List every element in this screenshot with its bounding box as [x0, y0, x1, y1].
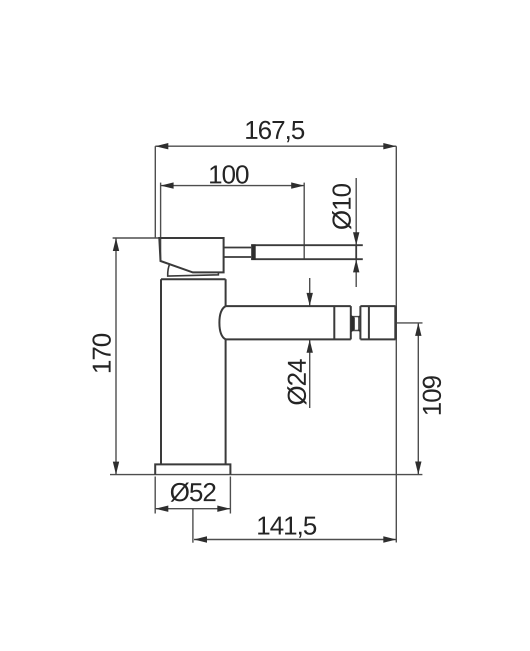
label 170 (vertical): [92, 334, 111, 372]
label diam52: [171, 483, 216, 502]
base surface line: [110, 474, 422, 476]
waist right corner fills: [358, 315, 360, 317]
dimension line 141,5: [194, 539, 396, 541]
aerator end cap left edge: [359, 306, 361, 339]
body right edge lower: [225, 339, 227, 464]
body top edge: [161, 278, 226, 280]
arrow 109 down: [415, 462, 421, 475]
spout-body fillet arc: [219, 306, 225, 339]
spout bottom lines: [226, 338, 396, 340]
waist thin lines: [352, 317, 360, 331]
extension line 100 left: [160, 183, 162, 261]
waist right inner line: [358, 317, 360, 330]
arrow 167,5 right: [383, 143, 396, 149]
arrow 170 down: [113, 462, 119, 475]
dimension line diam10 upper: [355, 178, 357, 245]
spout joint line: [333, 306, 335, 339]
arrow diam52 right: [217, 506, 230, 512]
dimension line diam10 lower: [355, 260, 357, 287]
spout mid section right edge: [350, 306, 352, 339]
body left edge: [160, 279, 162, 464]
dimension line 109: [417, 323, 419, 475]
tick at spout axis for 109: [396, 322, 422, 324]
spout top lines: [226, 305, 396, 307]
base flange: [155, 464, 230, 474]
arrow diam52 left: [155, 506, 168, 512]
arrow 170 up: [113, 238, 119, 251]
arrow 109 up: [415, 323, 421, 336]
label diam10 (vertical): [332, 184, 351, 229]
extension line left (lever top): [154, 146, 156, 237]
extension line right (spout end, full height): [395, 146, 397, 542]
tick at lever top for 170: [113, 237, 160, 239]
dimension line diam24 lower: [309, 340, 311, 408]
dimension line 167,5: [155, 145, 396, 147]
arrow 141,5 left: [194, 536, 207, 542]
dimension line diam24 upper: [309, 278, 311, 306]
rod ring: [251, 244, 256, 260]
lever head: [159, 238, 223, 272]
arrow diam10 up: [353, 259, 359, 272]
arrow 100 left: [161, 182, 174, 188]
lever rod top line: [251, 244, 363, 246]
extension lines diam52: [155, 477, 230, 514]
dimension line diam52: [155, 508, 230, 510]
lever rod neck: [224, 248, 252, 258]
dimension line 170: [115, 238, 117, 475]
arrowheads: [113, 143, 422, 543]
waist left shoulder: [351, 315, 355, 332]
label 141,5: [258, 517, 316, 538]
label 100: [210, 165, 248, 184]
spout end edge: [394, 306, 396, 339]
dimension line 100: [161, 185, 305, 187]
centerline from diam52 to 141,5: [192, 509, 194, 543]
body right edge upper: [225, 279, 227, 306]
arrow 141,5 right: [383, 536, 396, 542]
arrow diam24 up: [307, 340, 313, 353]
lever rod bottom line: [251, 258, 363, 260]
cartridge collar: [168, 264, 219, 276]
arrow 100 right: [291, 182, 304, 188]
lever rod end edge: [355, 245, 357, 259]
arrow 167,5 left: [155, 143, 168, 149]
aerator end cap joint: [368, 306, 370, 339]
label 167,5: [246, 121, 304, 143]
arrow diam24 down: [307, 293, 313, 306]
label 109 (vertical): [423, 376, 442, 414]
extension line 100 right (through lever rod): [303, 183, 305, 260]
arrow diam10 down: [353, 232, 359, 245]
label diam24 (vertical): [287, 359, 306, 405]
